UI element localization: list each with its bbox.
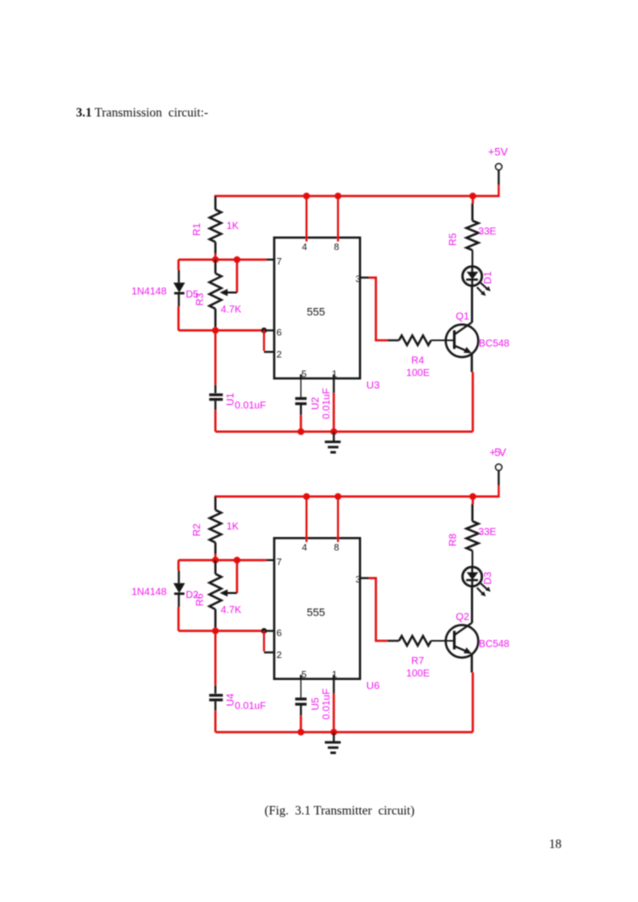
svg-text:18: 18 [549,837,562,851]
svg-text:R4: R4 [411,356,424,367]
resistor R4 100E [388,336,447,380]
svg-text:0.01uF: 0.01uF [235,400,266,411]
svg-text:R2: R2 [192,523,203,536]
transistor Q2 BC548 [446,612,510,658]
resistor R2 1K [192,497,239,561]
svg-text:R5: R5 [448,233,459,246]
junction on rail to R5 branch [469,493,476,500]
svg-text:U2: U2 [311,397,322,410]
junction on rail to pin 4 [303,193,310,200]
IC U6 555 timer [274,538,380,692]
svg-text:U3: U3 [366,380,380,392]
wiper arm of R6 [220,560,237,597]
svg-text:0.01uF: 0.01uF [235,701,266,712]
resistor R5 33E [448,196,496,267]
node +5V terminal (+5V A) [488,146,509,196]
junction pin7/R1/R3 [212,557,219,564]
svg-text:6: 6 [277,628,282,639]
svg-text:D3: D3 [483,571,494,584]
svg-text:U6: U6 [366,680,380,692]
ground symbol [325,732,341,753]
svg-text:8: 8 [334,242,339,253]
wire rail to pin8 [337,497,339,543]
junction pin7/wiper [234,557,241,564]
wire ground bottom rail [215,731,472,733]
svg-text:1N4148: 1N4148 [132,287,167,298]
svg-text:+5V: +5V [488,146,509,158]
wire pin3 to R4 [360,278,388,341]
wiper arm of R3 [220,260,237,297]
capacitor U4 0.01uF [209,631,266,732]
pin 5 stub [300,675,302,679]
svg-text:555: 555 [307,607,325,619]
wire pin1 to ground rail [333,378,335,431]
resistor R8 33E [448,497,496,568]
svg-text:1N4148: 1N4148 [132,587,167,598]
svg-text:100E: 100E [406,368,430,379]
svg-text:3: 3 [356,274,361,285]
junction on rail to R5 branch [469,193,476,200]
svg-text:R1: R1 [192,223,203,236]
capacitor U2 0.01uF [295,378,332,431]
wire pin6 net [179,329,275,331]
wire emitter to bottom rail [472,654,473,732]
wire +5V top rail [214,195,499,197]
resistor R1 1K [192,196,239,260]
svg-text:4.7K: 4.7K [221,304,242,315]
pin 5 stub [300,374,302,378]
svg-text:0.01uF: 0.01uF [321,388,332,419]
junction bottom rail / pin1 ground [330,729,337,736]
capacitor U1 0.01uF [209,330,266,431]
svg-text:D1: D1 [483,271,494,284]
svg-text:R6: R6 [195,593,206,606]
svg-text:5: 5 [301,670,306,681]
ground symbol [325,432,341,453]
svg-text:1K: 1K [227,522,240,533]
svg-text:100E: 100E [406,669,430,680]
svg-text:(Fig. 3.1 Transmitter circui: (Fig. 3.1 Transmitter circuit) [265,804,415,818]
node +5V terminal (+5V B) [490,447,507,497]
pin 1 stub [333,374,335,378]
svg-text:4: 4 [302,543,307,554]
junction pin7/wiper [234,256,241,263]
svg-text:6: 6 [277,327,282,338]
svg-text:555: 555 [307,306,325,318]
wire pin6-pin2 tie [264,330,275,352]
wire rail to pin4 [306,196,308,242]
wire pin7 net [179,259,275,261]
wire pin7 net [179,559,275,561]
svg-text:3.1 Transmission circuit:-: 3.1 Transmission circuit:- [76,106,208,120]
junction bottom rail / C pin5 [298,428,305,435]
svg-text:7: 7 [277,557,282,568]
svg-text:2: 2 [277,650,282,661]
IC U3 555 timer [274,238,380,392]
svg-text:5: 5 [301,369,306,380]
junction pin6 to pin2 tie [261,628,267,634]
diode D5 1N4148 [132,260,199,331]
svg-text:2: 2 [277,349,282,360]
LED D1 [463,266,495,296]
resistor R3 4.7K [195,260,241,331]
svg-text:3: 3 [356,574,361,585]
svg-text:4: 4 [302,242,307,253]
svg-text:Q2: Q2 [456,612,470,623]
junction pin6/R3/C [212,327,219,334]
wire pin6 net [179,630,275,632]
resistor R6 4.7K [195,560,241,631]
junction bottom rail / pin1 ground [330,428,337,435]
svg-text:8: 8 [334,543,339,554]
wire rail to pin4 [306,497,308,543]
svg-text:7: 7 [277,256,282,267]
svg-text:33E: 33E [478,226,496,237]
svg-text:+5V: +5V [490,447,507,459]
svg-text:4.7K: 4.7K [221,605,242,616]
wire ground bottom rail [215,431,472,433]
wire rail to pin8 [337,196,339,242]
transistor Q1 BC548 [446,311,510,357]
junction pin7/R1/R3 [212,256,219,263]
svg-text:33E: 33E [478,527,496,538]
svg-text:BC548: BC548 [479,639,510,650]
svg-text:R8: R8 [448,533,459,546]
junction on rail to pin 8 [335,193,342,200]
wire pin3 to R4 [360,578,388,641]
wire pin1 to ground rail [333,679,335,732]
wire LED to collector [471,586,473,623]
pin 1 stub [333,675,335,679]
svg-text:0.01uF: 0.01uF [321,689,332,720]
wire pin6-pin2 tie [264,631,275,653]
junction bottom rail / C pin5 [298,729,305,736]
svg-text:Q1: Q1 [456,311,470,322]
junction pin6/R3/C [212,628,219,635]
diode D2 1N4148 [132,560,199,631]
svg-text:R3: R3 [195,292,206,305]
svg-text:1K: 1K [227,221,240,232]
junction on rail to pin 4 [303,493,310,500]
wire emitter to bottom rail [472,354,473,432]
junction pin6 to pin2 tie [261,328,267,334]
resistor R7 100E [388,636,447,680]
wire LED to collector [471,286,473,323]
LED D3 [463,567,495,597]
wire +5V top rail [214,495,499,497]
svg-text:R7: R7 [411,656,424,667]
junction on rail to pin 8 [335,493,342,500]
svg-text:U5: U5 [311,697,322,710]
capacitor U5 0.01uF [295,679,332,732]
svg-text:BC548: BC548 [479,338,510,349]
